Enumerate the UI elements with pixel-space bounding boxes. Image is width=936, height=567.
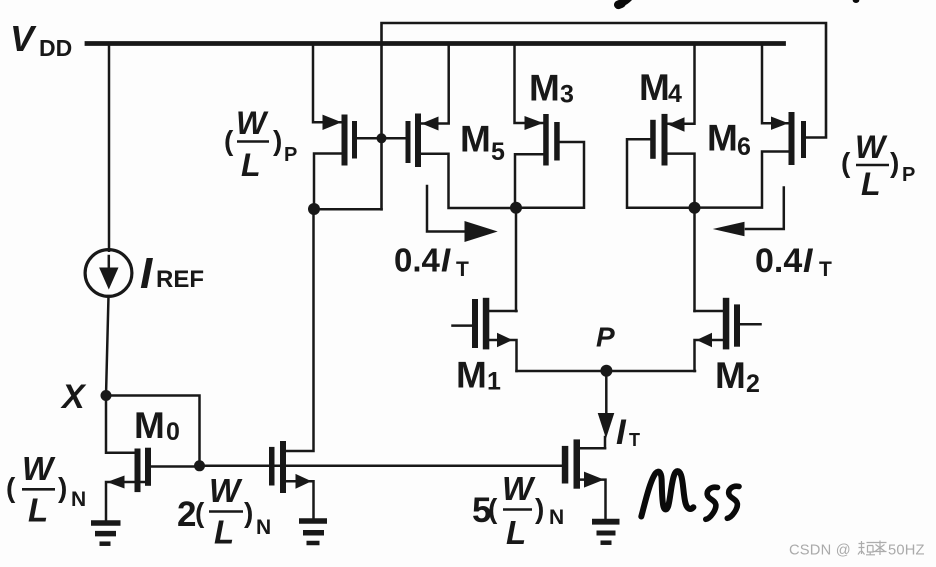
svg-text:P: P [596, 322, 615, 353]
svg-text:V: V [10, 18, 37, 59]
svg-text:L: L [214, 514, 234, 551]
svg-text:): ) [890, 147, 899, 178]
svg-text:P: P [902, 164, 915, 186]
svg-text:W: W [502, 470, 536, 507]
svg-text:): ) [58, 472, 67, 503]
svg-text:6: 6 [737, 133, 751, 161]
svg-text:M: M [456, 355, 487, 396]
svg-text:I: I [616, 413, 627, 452]
svg-text:4: 4 [668, 80, 682, 108]
svg-text:M: M [707, 118, 738, 159]
svg-text:N: N [256, 516, 271, 539]
svg-text:M: M [460, 119, 491, 160]
svg-text:REF: REF [156, 266, 204, 293]
svg-text:T: T [819, 258, 832, 281]
svg-text:): ) [244, 497, 253, 528]
svg-text:50HZ: 50HZ [888, 543, 925, 559]
svg-text:W: W [22, 450, 56, 487]
svg-text:M: M [134, 405, 165, 446]
svg-text:I: I [441, 242, 451, 279]
svg-text:M: M [715, 355, 746, 396]
svg-text:T: T [456, 258, 469, 281]
svg-text:W: W [855, 129, 888, 165]
svg-text:I: I [140, 249, 153, 298]
svg-text:N: N [71, 488, 86, 511]
svg-text:W: W [209, 472, 243, 509]
svg-text:P: P [284, 144, 297, 166]
svg-text:I: I [803, 242, 814, 280]
svg-text:L: L [506, 514, 526, 551]
svg-text:2: 2 [177, 495, 196, 534]
svg-text:): ) [535, 493, 544, 524]
svg-text:CSDN @: CSDN @ [789, 543, 851, 559]
svg-text:2: 2 [746, 370, 760, 398]
svg-text:M: M [639, 67, 670, 108]
svg-text:DD: DD [39, 35, 72, 61]
svg-text:(: ( [841, 147, 851, 178]
svg-text:X: X [60, 378, 87, 416]
svg-text:W: W [236, 105, 269, 141]
svg-text:3: 3 [560, 81, 574, 109]
svg-text:N: N [549, 506, 564, 529]
svg-text:0.4: 0.4 [755, 242, 802, 280]
svg-text:1: 1 [487, 368, 501, 396]
svg-text:M: M [529, 68, 560, 109]
svg-text:(: ( [6, 472, 16, 503]
svg-text:0: 0 [166, 418, 180, 446]
svg-text:(: ( [224, 125, 234, 156]
svg-text:L: L [861, 166, 881, 202]
svg-text:L: L [28, 492, 48, 529]
svg-text:L: L [241, 147, 261, 183]
svg-text:): ) [273, 125, 282, 156]
svg-text:0.4: 0.4 [394, 242, 441, 279]
svg-text:(: ( [195, 497, 205, 528]
svg-text:(: ( [488, 493, 498, 524]
svg-text:5: 5 [491, 138, 505, 166]
svg-text:T: T [629, 430, 640, 450]
